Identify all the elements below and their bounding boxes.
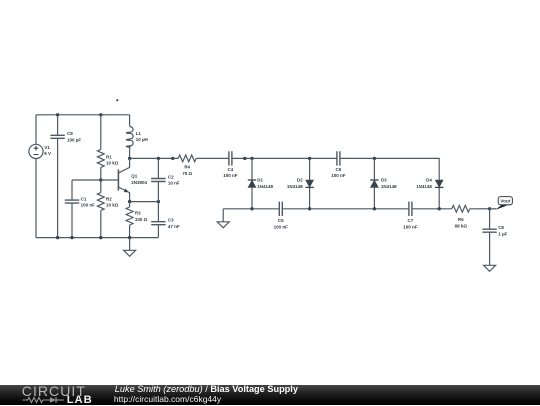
svg-text:Vout: Vout xyxy=(500,198,510,203)
inductor L1 xyxy=(126,115,133,159)
junction D3 bottom xyxy=(373,207,376,210)
svg-text:2N3904: 2N3904 xyxy=(131,180,147,185)
junction D4 bottom xyxy=(438,207,441,210)
svg-text:330 Ω: 330 Ω xyxy=(135,217,148,222)
svg-text:D3: D3 xyxy=(381,178,387,183)
junction D3 top xyxy=(373,157,376,160)
wire bottom rail xyxy=(36,237,158,239)
svg-text:100 nF: 100 nF xyxy=(81,203,96,208)
svg-text:1N4148: 1N4148 xyxy=(257,184,273,189)
diode D4 xyxy=(435,180,443,187)
stray mark xyxy=(116,99,118,101)
junction L1 bottom xyxy=(128,157,131,160)
CircuitLab logo text LAB xyxy=(67,395,93,406)
svg-text:V1: V1 xyxy=(44,145,50,150)
svg-text:C6: C6 xyxy=(336,167,342,172)
junction C2 C3 xyxy=(157,200,160,203)
capacitor C1 xyxy=(65,180,79,238)
capacitor C2 xyxy=(151,158,165,201)
wire emitter row xyxy=(130,201,159,203)
junction Vout node xyxy=(488,207,491,210)
diode D3 leads xyxy=(373,158,375,208)
svg-text:R5: R5 xyxy=(458,217,464,222)
resistor R3 xyxy=(126,202,133,238)
svg-text:1N4148: 1N4148 xyxy=(287,184,303,189)
footer url line xyxy=(114,395,221,404)
junction wire end xyxy=(243,157,246,160)
junction D2 top xyxy=(308,157,311,160)
svg-text:R4: R4 xyxy=(184,165,190,170)
svg-text:C4: C4 xyxy=(228,167,234,172)
ground left xyxy=(124,250,136,256)
ground mid stub xyxy=(222,209,224,222)
junction wire end xyxy=(171,157,174,160)
svg-text:C3: C3 xyxy=(168,218,174,223)
wire C5 to C7 xyxy=(282,208,409,210)
diode D1 xyxy=(248,180,256,187)
svg-text:100 nF: 100 nF xyxy=(223,173,238,178)
ground left stub xyxy=(129,238,131,251)
svg-text:C2: C2 xyxy=(168,175,174,180)
svg-text:R2: R2 xyxy=(106,196,112,201)
capacitor C7 xyxy=(409,202,412,216)
diode D1 leads xyxy=(251,158,253,208)
svg-text:D2: D2 xyxy=(297,178,303,183)
svg-text:1 µF: 1 µF xyxy=(498,231,507,236)
resistor R2 xyxy=(97,180,104,238)
wire top rail xyxy=(36,114,130,116)
svg-text:C5: C5 xyxy=(278,218,284,223)
svg-text:R1: R1 xyxy=(106,155,112,160)
svg-text:C1: C1 xyxy=(81,196,87,201)
wire mid rail left xyxy=(223,208,279,210)
wire collector rail xyxy=(130,157,173,159)
capacitor C4 xyxy=(229,151,232,165)
wire C7 to R5 xyxy=(412,208,447,210)
svg-text:100 nF: 100 nF xyxy=(331,173,346,178)
wire C4 to C6 xyxy=(232,157,337,159)
svg-text:L1: L1 xyxy=(136,131,142,136)
diode D2 leads xyxy=(309,158,311,208)
wire node to Vout flag xyxy=(490,208,497,210)
wire base row xyxy=(72,179,118,181)
capacitor C6 xyxy=(337,151,340,165)
diode D3 xyxy=(370,180,378,187)
ground mid xyxy=(217,222,229,228)
svg-text:100 nF: 100 nF xyxy=(403,224,418,229)
transistor Q1 xyxy=(118,158,129,201)
svg-text:C8: C8 xyxy=(498,225,504,230)
wire R5 to Vout node xyxy=(475,208,489,210)
svg-text:100 µF: 100 µF xyxy=(67,137,81,142)
svg-text:D4: D4 xyxy=(426,178,432,183)
diode D2 xyxy=(305,180,313,187)
svg-text:C7: C7 xyxy=(408,218,414,223)
svg-text:C9: C9 xyxy=(67,131,73,136)
junction C9 bottom xyxy=(56,236,59,239)
junction C2 top xyxy=(157,157,160,160)
junction C9 top xyxy=(56,113,59,116)
wire C6 to D4 xyxy=(340,158,439,180)
svg-text:68 kΩ: 68 kΩ xyxy=(455,223,468,228)
wire R4 to C4 xyxy=(202,157,229,159)
svg-text:R3: R3 xyxy=(135,211,141,216)
node Vout flag xyxy=(495,197,512,210)
junction R1 top xyxy=(99,113,102,116)
svg-text:1N4148: 1N4148 xyxy=(416,184,432,189)
capacitor C5 xyxy=(279,202,282,216)
svg-text:47 nF: 47 nF xyxy=(168,224,180,229)
junction D1 top xyxy=(250,157,253,160)
ground right xyxy=(484,265,496,271)
resistor R4 xyxy=(173,155,202,162)
capacitor C8 xyxy=(482,209,496,265)
junction R3 bottom xyxy=(128,236,131,239)
CircuitLab logo text CIRCUIT xyxy=(22,383,86,399)
voltage source V1 xyxy=(29,115,43,238)
junction D1 bottom xyxy=(250,207,253,210)
svg-text:10 nF: 10 nF xyxy=(168,181,180,186)
svg-text:1N4148: 1N4148 xyxy=(381,184,397,189)
svg-text:10 µH: 10 µH xyxy=(136,137,148,142)
junction R2 bottom xyxy=(99,236,102,239)
junction D2 bottom xyxy=(308,207,311,210)
svg-text:10 kΩ: 10 kΩ xyxy=(106,161,119,166)
svg-text:75 Ω: 75 Ω xyxy=(182,171,192,176)
diode D4 leads xyxy=(438,188,440,209)
footer bar xyxy=(0,385,540,405)
resistor R5 xyxy=(446,205,475,212)
svg-text:9 V: 9 V xyxy=(44,151,51,156)
svg-text:100 nF: 100 nF xyxy=(274,224,289,229)
resistor R1 xyxy=(97,115,104,180)
svg-text:Q1: Q1 xyxy=(131,174,138,179)
capacitor C9 xyxy=(50,115,64,238)
junction R1 R2 xyxy=(99,178,102,181)
junction emitter xyxy=(128,200,131,203)
svg-text:D1: D1 xyxy=(257,178,263,183)
svg-text:10 kΩ: 10 kΩ xyxy=(106,203,119,208)
capacitor C3 xyxy=(151,202,165,238)
footer title line xyxy=(115,385,298,394)
junction C1 bottom xyxy=(70,236,73,239)
logo resistor-diode squiggle xyxy=(22,395,72,405)
